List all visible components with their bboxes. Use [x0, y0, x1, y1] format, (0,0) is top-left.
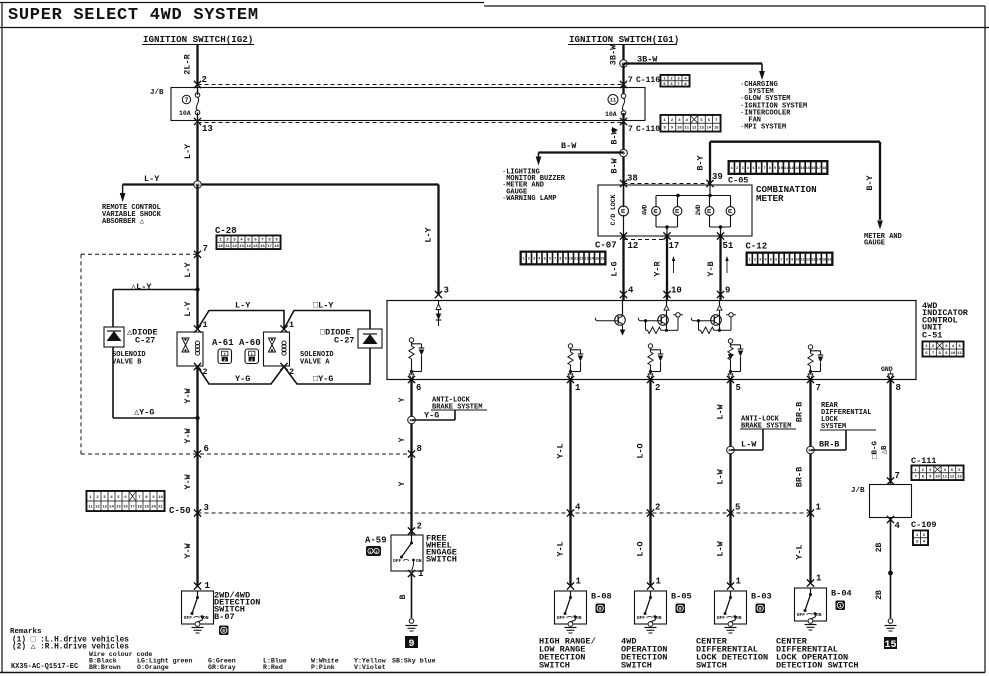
svg-text:8: 8	[769, 167, 771, 171]
svg-text:12: 12	[950, 476, 955, 480]
svg-text:Remarks: Remarks	[10, 628, 42, 636]
svg-text:ON: ON	[816, 612, 822, 618]
svg-text:B: B	[399, 594, 408, 599]
svg-text:12: 12	[692, 127, 697, 131]
svg-text:11: 11	[801, 258, 805, 262]
svg-text:15: 15	[116, 505, 121, 509]
svg-text:3: 3	[742, 167, 744, 171]
svg-text:7: 7	[895, 471, 900, 481]
svg-text:B-W: B-W	[561, 141, 577, 151]
svg-text:3B-W: 3B-W	[637, 55, 658, 65]
svg-text:1: 1	[251, 353, 253, 357]
svg-text:GAUGE: GAUGE	[864, 240, 885, 248]
svg-text:OFF: OFF	[557, 615, 566, 621]
svg-text:13: 13	[699, 127, 704, 131]
svg-text:BR-B: BR-B	[795, 467, 805, 487]
svg-text:10A: 10A	[605, 111, 617, 118]
svg-text:13: 13	[957, 476, 962, 480]
svg-text:2L-R: 2L-R	[183, 53, 193, 74]
svg-text:2: 2	[655, 503, 660, 513]
svg-text:L-W: L-W	[741, 440, 757, 450]
svg-text:10: 10	[677, 127, 682, 131]
svg-text:5: 5	[752, 167, 754, 171]
svg-text:3: 3	[204, 503, 209, 513]
svg-text:1: 1	[369, 551, 371, 555]
svg-text:4: 4	[575, 503, 581, 513]
svg-text:12: 12	[95, 505, 100, 509]
svg-text:14: 14	[246, 245, 251, 249]
svg-text:0: 0	[222, 628, 225, 634]
svg-text:ABSORBER △: ABSORBER △	[102, 218, 145, 226]
svg-text:C-27: C-27	[334, 336, 354, 346]
svg-text:15: 15	[714, 127, 719, 131]
svg-text:11: 11	[957, 352, 962, 356]
svg-text:8: 8	[786, 258, 788, 262]
svg-text:1: 1	[576, 577, 582, 587]
svg-text:B-Y: B-Y	[696, 154, 706, 170]
svg-text:6: 6	[549, 258, 551, 262]
svg-text:7: 7	[628, 125, 633, 134]
svg-text:5: 5	[735, 503, 740, 513]
svg-text:OFF: OFF	[797, 612, 806, 618]
svg-text:ON: ON	[416, 558, 422, 564]
svg-text:6: 6	[416, 383, 421, 393]
svg-text:B-03: B-03	[751, 592, 772, 602]
svg-text:16: 16	[827, 258, 831, 262]
svg-text:L-O: L-O	[636, 541, 646, 556]
svg-text:11: 11	[225, 245, 230, 249]
svg-text:1: 1	[289, 320, 294, 330]
svg-text:1: 1	[418, 569, 424, 579]
svg-text:C-110: C-110	[636, 125, 660, 134]
svg-text:9: 9	[725, 286, 730, 296]
svg-text:5: 5	[770, 258, 772, 262]
svg-text:9: 9	[774, 167, 776, 171]
svg-text:7: 7	[816, 383, 821, 393]
svg-text:B-08: B-08	[591, 592, 612, 602]
svg-text:METER: METER	[756, 193, 784, 204]
svg-text:15: 15	[822, 258, 826, 262]
svg-text:4: 4	[747, 167, 749, 171]
svg-text:7: 7	[628, 76, 633, 85]
svg-text:Y-L: Y-L	[795, 544, 805, 559]
svg-text:BR:Brown: BR:Brown	[89, 664, 121, 671]
svg-text:4: 4	[895, 521, 901, 531]
svg-text:SWITCH: SWITCH	[539, 661, 570, 671]
svg-text:□B-G: □B-G	[872, 441, 880, 460]
svg-text:C-109: C-109	[911, 520, 937, 530]
svg-text:4: 4	[628, 286, 634, 296]
svg-text:2: 2	[224, 359, 226, 363]
svg-text:C-27: C-27	[135, 336, 155, 346]
svg-text:1: 1	[736, 577, 742, 587]
svg-text:13: 13	[202, 124, 213, 134]
svg-text:13: 13	[585, 258, 589, 262]
svg-text:A-59: A-59	[365, 536, 387, 546]
svg-text:15: 15	[806, 167, 810, 171]
svg-text:16: 16	[260, 245, 265, 249]
svg-text:14: 14	[590, 258, 594, 262]
svg-text:6: 6	[204, 444, 209, 454]
svg-text:O:Orange: O:Orange	[137, 664, 169, 671]
svg-text:11: 11	[610, 98, 616, 104]
svg-text:9: 9	[565, 258, 567, 262]
svg-text:2: 2	[417, 522, 422, 532]
svg-text:9: 9	[791, 258, 793, 262]
svg-text:2: 2	[251, 359, 253, 363]
svg-text:15: 15	[253, 245, 258, 249]
svg-text:△Y-G: △Y-G	[134, 408, 154, 418]
svg-text:1: 1	[816, 503, 822, 513]
svg-text:·WARNING LAMP: ·WARNING LAMP	[502, 195, 557, 203]
svg-text:7: 7	[781, 258, 783, 262]
svg-text:1: 1	[203, 320, 208, 330]
svg-text:B-W: B-W	[610, 157, 620, 173]
svg-text:KX35-AC-Q1517-EC: KX35-AC-Q1517-EC	[11, 663, 78, 671]
svg-text:2B: 2B	[875, 590, 884, 600]
svg-text:3: 3	[533, 258, 535, 262]
svg-text:7: 7	[185, 97, 189, 104]
svg-text:B-07: B-07	[214, 612, 235, 622]
svg-text:L-Y: L-Y	[144, 174, 160, 184]
svg-text:C-07: C-07	[595, 241, 617, 251]
svg-text:2: 2	[736, 167, 738, 171]
svg-text:2: 2	[754, 258, 756, 262]
svg-text:0: 0	[679, 606, 682, 612]
svg-text:BR-B: BR-B	[795, 402, 805, 422]
svg-text:R:Red: R:Red	[263, 664, 283, 671]
svg-text:17: 17	[130, 505, 135, 509]
svg-text:13: 13	[811, 258, 815, 262]
svg-text:Y-W: Y-W	[183, 473, 193, 489]
svg-text:L-O: L-O	[636, 443, 646, 458]
svg-text:3: 3	[444, 286, 449, 296]
svg-text:9: 9	[408, 639, 414, 650]
svg-text:16: 16	[600, 258, 604, 262]
svg-text:17: 17	[817, 167, 821, 171]
svg-text:18: 18	[822, 167, 826, 171]
svg-text:10: 10	[158, 496, 163, 500]
svg-text:5: 5	[736, 383, 741, 393]
svg-text:16: 16	[123, 505, 128, 509]
svg-text:11: 11	[88, 505, 93, 509]
svg-text:SB:Sky blue: SB:Sky blue	[392, 658, 436, 665]
svg-text:4: 4	[538, 258, 540, 262]
svg-text:□L-Y: □L-Y	[313, 301, 334, 311]
svg-text:51: 51	[723, 241, 734, 251]
svg-text:BR-B: BR-B	[819, 440, 839, 450]
svg-text:14: 14	[800, 167, 804, 171]
svg-text:7: 7	[763, 167, 765, 171]
svg-text:L-W: L-W	[716, 403, 726, 419]
svg-text:L-Y: L-Y	[183, 143, 193, 159]
svg-text:·MPI SYSTEM: ·MPI SYSTEM	[740, 124, 786, 132]
svg-text:10: 10	[671, 286, 682, 296]
svg-text:17: 17	[267, 245, 272, 249]
svg-text:Y-W: Y-W	[183, 427, 193, 443]
svg-text:2: 2	[528, 258, 530, 262]
svg-text:4: 4	[765, 258, 767, 262]
svg-text:△B: △B	[881, 445, 889, 455]
svg-text:Y-L: Y-L	[556, 541, 566, 556]
svg-text:12: 12	[806, 258, 810, 262]
svg-text:C-50: C-50	[169, 506, 191, 516]
svg-text:VALVE B: VALVE B	[112, 359, 142, 367]
svg-text:L-W: L-W	[716, 540, 726, 556]
svg-text:14: 14	[707, 127, 712, 131]
svg-text:38: 38	[627, 174, 638, 184]
svg-text:1: 1	[731, 167, 733, 171]
svg-text:11: 11	[685, 127, 690, 131]
svg-text:Y-G: Y-G	[424, 411, 439, 421]
svg-text:OFF: OFF	[393, 558, 402, 564]
svg-text:13: 13	[795, 167, 799, 171]
svg-text:4WD: 4WD	[642, 204, 649, 215]
svg-text:L-Y: L-Y	[183, 261, 193, 277]
svg-text:V:Violet: V:Violet	[354, 664, 386, 671]
svg-text:C-51: C-51	[922, 331, 942, 341]
svg-text:0: 0	[599, 606, 602, 612]
svg-text:2: 2	[202, 75, 207, 85]
svg-text:3: 3	[759, 258, 761, 262]
svg-text:SWITCH: SWITCH	[426, 555, 457, 565]
svg-text:A-61: A-61	[212, 338, 234, 348]
svg-text:J/B: J/B	[851, 487, 865, 495]
svg-text:L-Y: L-Y	[183, 300, 193, 316]
svg-text:SWITCH: SWITCH	[621, 661, 652, 671]
svg-text:1: 1	[575, 383, 581, 393]
svg-text:18: 18	[137, 505, 142, 509]
svg-text:13: 13	[102, 505, 107, 509]
svg-text:8: 8	[417, 444, 422, 454]
svg-text:10: 10	[935, 476, 940, 480]
svg-text:Y-W: Y-W	[183, 542, 193, 558]
svg-text:OFF: OFF	[717, 615, 726, 621]
svg-text:15: 15	[884, 640, 896, 651]
svg-text:□Y-G: □Y-G	[313, 374, 333, 384]
svg-text:Y-L: Y-L	[556, 443, 566, 458]
svg-text:IGNITION SWITCH(IG1): IGNITION SWITCH(IG1)	[569, 34, 679, 45]
svg-text:1: 1	[523, 258, 525, 262]
svg-text:1: 1	[205, 581, 211, 591]
svg-text:2: 2	[655, 383, 660, 393]
svg-text:OFF: OFF	[637, 615, 646, 621]
svg-text:SWITCH: SWITCH	[696, 661, 727, 671]
svg-text:1: 1	[839, 603, 842, 609]
svg-text:IGNITION SWITCH(IG2): IGNITION SWITCH(IG2)	[143, 34, 253, 45]
svg-text:C/D LOCK: C/D LOCK	[610, 194, 617, 225]
svg-text:A-60: A-60	[239, 338, 261, 348]
svg-text:P:Pink: P:Pink	[311, 664, 335, 671]
svg-text:J/B: J/B	[150, 89, 164, 97]
svg-text:3B-W: 3B-W	[609, 44, 619, 65]
svg-text:11: 11	[574, 258, 578, 262]
svg-text:10: 10	[569, 258, 573, 262]
svg-text:SUPER SELECT 4WD SYSTEM: SUPER SELECT 4WD SYSTEM	[8, 6, 259, 25]
svg-text:VALVE A: VALVE A	[300, 359, 330, 367]
svg-text:C-12: C-12	[746, 242, 768, 252]
svg-text:0: 0	[759, 606, 762, 612]
svg-text:2: 2	[375, 551, 377, 555]
svg-text:2WD: 2WD	[695, 204, 702, 215]
svg-text:1: 1	[224, 353, 226, 357]
svg-text:C-116: C-116	[636, 76, 660, 85]
svg-text:ON: ON	[656, 615, 662, 621]
svg-text:12: 12	[790, 167, 794, 171]
svg-text:L-G: L-G	[610, 261, 620, 276]
svg-text:△L-Y: △L-Y	[131, 282, 152, 292]
svg-text:12: 12	[628, 241, 639, 251]
svg-text:20: 20	[151, 505, 156, 509]
svg-text:B-Y: B-Y	[865, 174, 875, 190]
svg-text:OFF: OFF	[184, 615, 193, 621]
svg-text:Y: Y	[398, 481, 407, 486]
svg-text:14: 14	[109, 505, 114, 509]
svg-text:17: 17	[669, 241, 680, 251]
svg-text:15: 15	[595, 258, 599, 262]
svg-text:1: 1	[656, 577, 662, 587]
svg-text:21: 21	[158, 505, 163, 509]
svg-text:12: 12	[579, 258, 583, 262]
svg-text:16: 16	[811, 167, 815, 171]
svg-text:2B: 2B	[875, 543, 884, 553]
svg-text:1: 1	[816, 574, 822, 584]
svg-text:10: 10	[951, 352, 956, 356]
svg-text:8: 8	[896, 383, 901, 393]
svg-text:6: 6	[775, 258, 777, 262]
svg-text:Y: Y	[398, 397, 407, 402]
svg-text:DETECTION SWITCH: DETECTION SWITCH	[776, 661, 859, 671]
svg-text:13: 13	[239, 245, 244, 249]
svg-text:GND: GND	[881, 366, 893, 373]
svg-text:12: 12	[232, 245, 237, 249]
svg-text:Y: Y	[398, 437, 407, 442]
svg-text:14: 14	[817, 258, 821, 262]
svg-text:ON: ON	[203, 615, 209, 621]
svg-text:Y-R: Y-R	[653, 260, 663, 276]
svg-text:5: 5	[544, 258, 546, 262]
svg-text:11: 11	[943, 476, 948, 480]
svg-text:ON: ON	[576, 615, 582, 621]
svg-text:18: 18	[274, 245, 279, 249]
svg-text:6: 6	[758, 167, 760, 171]
svg-text:L-Y: L-Y	[235, 301, 251, 311]
svg-text:7: 7	[554, 258, 556, 262]
svg-text:B-04: B-04	[831, 589, 852, 599]
svg-text:L-W: L-W	[716, 468, 726, 484]
svg-text:ON: ON	[736, 615, 742, 621]
svg-text:19: 19	[144, 505, 149, 509]
svg-text:Y-G: Y-G	[235, 374, 250, 384]
svg-text:B-W: B-W	[610, 128, 620, 144]
svg-text:Y-W: Y-W	[183, 387, 193, 403]
svg-text:10: 10	[218, 245, 223, 249]
svg-text:Y-B: Y-B	[706, 261, 716, 276]
svg-text:10: 10	[779, 167, 783, 171]
svg-text:10A: 10A	[179, 110, 191, 117]
svg-text:8: 8	[559, 258, 561, 262]
svg-text:L-Y: L-Y	[424, 226, 434, 242]
svg-text:C-05: C-05	[728, 176, 748, 186]
svg-text:GR:Gray: GR:Gray	[208, 664, 236, 671]
svg-text:B-05: B-05	[671, 592, 692, 602]
svg-text:1: 1	[749, 258, 751, 262]
svg-text:7: 7	[203, 244, 208, 254]
svg-text:11: 11	[784, 167, 788, 171]
svg-text:10: 10	[795, 258, 799, 262]
